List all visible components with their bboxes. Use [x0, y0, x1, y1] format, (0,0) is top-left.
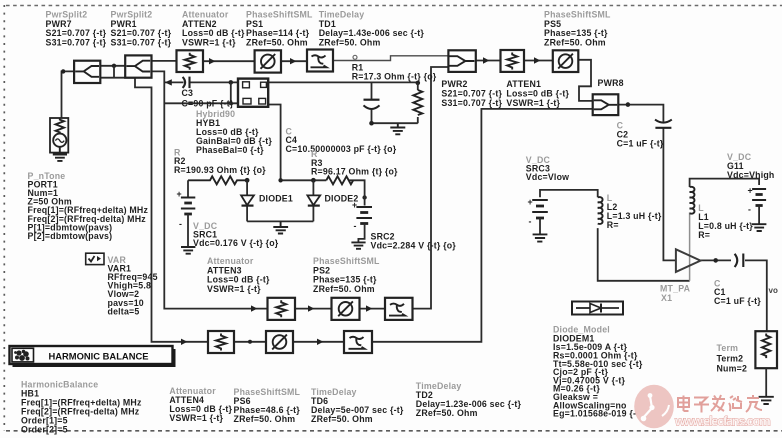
arrow on ATTEN3 input wire [251, 305, 257, 311]
svg-text:PWR8: PWR8 [598, 78, 624, 88]
svg-text:+: + [177, 189, 182, 199]
phase shifter PS1 [255, 50, 281, 72]
label Attenuator ATTEN4 [169, 386, 232, 423]
power combiner PWR2 [448, 50, 475, 72]
wire tap down from C3 wire to hybrid lower-left wire [230, 82, 232, 103]
wire C1 to vo and down to Term2 [745, 260, 767, 331]
time delay TD6 [344, 331, 372, 353]
svg-text:S31=0.707 {-t}: S31=0.707 {-t} [46, 37, 107, 47]
diode DIODE1 [241, 180, 254, 221]
svg-text:ZRef=50. Ohm: ZRef=50. Ohm [416, 408, 478, 418]
arrow ATTEN3 to PS2 [308, 305, 314, 311]
phase shifter PS6 [266, 331, 293, 353]
svg-text:Vdc=2.284 V {-t} {o}: Vdc=2.284 V {-t} {o} [371, 241, 457, 251]
wire C2 down to amplifier input [663, 128, 676, 261]
label PwrSplit2 PWR1 [111, 10, 172, 48]
svg-text:C=1 uF {-t}: C=1 uF {-t} [617, 139, 664, 149]
wire SRC3 to L2 [540, 190, 598, 197]
svg-text:vo: vo [769, 286, 778, 295]
watermark chinese characters [678, 395, 762, 413]
node junction PWR7 outputs [112, 64, 116, 68]
ground SRC3 [533, 234, 548, 241]
svg-text:X1: X1 [661, 293, 672, 303]
label SRC2 [371, 232, 457, 251]
svg-text:R=190.93 Ohm {t} {o}: R=190.93 Ohm {t} {o} [174, 165, 266, 175]
wire HYB1 output to shunt RC [268, 81, 418, 83]
ground under PORT1 [53, 147, 67, 161]
svg-text:P[2]=dbmtow(pavs): P[2]=dbmtow(pavs) [28, 231, 113, 241]
phase shifter PS2 [332, 298, 360, 320]
node tap junction on hybrid lower wire [229, 101, 233, 105]
node on SRC2 drop wire [362, 195, 366, 199]
svg-text:R=17.3 Ohm {-t} {o}: R=17.3 Ohm {-t} {o} [352, 72, 437, 82]
wire TD1 to PWR2 upper input [333, 56, 448, 61]
label C2 [617, 121, 664, 149]
power combiner PWR8 [593, 94, 619, 115]
label P_nTone PORT1 [28, 171, 149, 241]
node shunt R top [416, 81, 421, 86]
svg-text:C=10.50000003 pF {-t} {o}: C=10.50000003 pF {-t} {o} [286, 144, 397, 154]
power splitter PWR1 [125, 55, 151, 77]
svg-text:Loss=0 dB {-t}: Loss=0 dB {-t} [506, 89, 569, 99]
watermark logo circle [634, 385, 674, 429]
svg-text:C=90 pF {-t}: C=90 pF {-t} [182, 98, 234, 108]
power splitter PWR7 [74, 61, 100, 83]
wire PS1 to TD1 [281, 60, 307, 62]
label R1 [352, 63, 437, 82]
node DIODE1 top [245, 178, 250, 183]
svg-text:-: - [354, 221, 357, 231]
svg-text:VSWR=1 {-t}: VSWR=1 {-t} [506, 98, 560, 108]
wire shunt cap stub [371, 82, 373, 123]
wire shunt R stub and bottom wire [372, 83, 418, 123]
inductor L1 [690, 187, 695, 214]
svg-text:Vdc=Vhigh: Vdc=Vhigh [727, 170, 775, 180]
ground SRC1 [181, 247, 195, 254]
svg-text:R=: R= [698, 230, 710, 240]
wire L1 top to G11 [690, 179, 760, 187]
ground Term2 [759, 397, 774, 404]
svg-text:S31=0.707 {-t}: S31=0.707 {-t} [111, 37, 172, 47]
label C3 [182, 88, 234, 108]
amplifier MT_PA X1 [676, 249, 701, 272]
shunt capacitor on R1 line [364, 100, 380, 109]
wire C3 to HYB1 [190, 81, 241, 83]
label PhaseShiftSML PS5 [544, 10, 611, 48]
label L1 [698, 203, 753, 240]
svg-text:DIODE2: DIODE2 [325, 194, 359, 204]
label L2 [607, 193, 662, 230]
wire PWR7 to PWR1 [100, 65, 125, 67]
node amp output [713, 258, 718, 263]
label TimeDelay TD1 [319, 10, 425, 48]
wire ATTEN4 to PS6 [234, 341, 266, 343]
wire L2 down to bias rail [598, 228, 690, 281]
wire diode bottoms [247, 220, 313, 222]
battery G11 [748, 186, 767, 224]
label Hybrid90 HYB1 [196, 109, 272, 155]
svg-text:ATTEN1: ATTEN1 [506, 79, 541, 89]
svg-text:ZRef=50. Ohm: ZRef=50. Ohm [313, 284, 375, 294]
svg-text:ZRef=50. Ohm: ZRef=50. Ohm [246, 37, 308, 47]
wire ATTEN2 to PS1 [203, 60, 255, 62]
label TimeDelay TD2 [416, 381, 522, 418]
label PhaseShiftSML PS2 [313, 256, 380, 294]
label R3 [311, 149, 398, 177]
label HarmonicBalance HB1 [21, 380, 142, 435]
node junction C3 wire to lower tap [229, 80, 234, 85]
label PhaseShiftSML PS1 [246, 10, 313, 48]
attenuator ATTEN1 [501, 50, 525, 72]
port source PORT1 [50, 118, 68, 153]
svg-text:ZRef=50. Ohm: ZRef=50. Ohm [311, 414, 373, 424]
label Term Term2 [717, 343, 748, 374]
terminal Term2 [755, 331, 777, 396]
svg-text:+: + [748, 186, 753, 196]
svg-text:+: + [528, 197, 533, 207]
node ATTEN4 to PS6 [248, 340, 252, 344]
time delay TD2 [385, 298, 413, 320]
resistor R1 shunt [413, 90, 422, 115]
node shunt bottom [369, 121, 374, 126]
wire L1 bottom through amp to rail [689, 212, 691, 280]
label ATTEN1 [506, 79, 569, 108]
label PWR2 [441, 79, 502, 108]
label PwrSplit2 PWR7 [46, 10, 107, 48]
battery SRC1 [177, 180, 196, 246]
node at PWR7 input [61, 69, 65, 73]
svg-text:-: - [748, 205, 751, 215]
label V_DC SRC3 [526, 155, 569, 182]
label TimeDelay TD6 [311, 387, 404, 424]
capacitor C1 [735, 254, 744, 268]
ground diodes [273, 221, 288, 233]
capacitor C2 [655, 120, 672, 128]
attenuator ATTEN3 [268, 298, 296, 320]
diode DIODE2 [307, 180, 320, 221]
VAR icon [86, 253, 104, 264]
wire hybrid bottom-left port line [164, 102, 241, 104]
node PWR8 output [626, 102, 631, 107]
wire source to PWR7 [62, 71, 75, 117]
arrow ATTEN1 to PS5 [534, 57, 540, 63]
label C4 [286, 127, 397, 154]
diode model symbol DIODEM1 [572, 302, 623, 315]
label MT_PA X1 [660, 284, 691, 304]
arrow PS6 to TD6 [317, 339, 323, 345]
svg-text:www.elecfans.com: www.elecfans.com [674, 414, 771, 429]
wire ATTEN3 chain return up to PWR2 lower input [413, 67, 449, 309]
svg-text:C3: C3 [182, 88, 194, 98]
svg-text:R=: R= [607, 220, 619, 230]
svg-text:-: - [179, 219, 182, 229]
node DIODE2 top [311, 178, 316, 183]
label Attenuator ATTEN3 [207, 256, 270, 294]
svg-text:Term2: Term2 [717, 354, 744, 364]
attenuator ATTEN4 [208, 331, 234, 353]
label R2 [174, 148, 266, 175]
svg-text:R=96.17 Ohm {t} {o}: R=96.17 Ohm {t} {o} [311, 167, 398, 177]
arrow PS1 to TD1 [290, 58, 296, 64]
wire TD6 chain return up to PWR8 lower input [372, 109, 593, 342]
ground shunt RC [390, 123, 405, 134]
wire hybrid bottom-right port down to diode rail [266, 105, 281, 181]
resistor R2 on diode rail [188, 176, 247, 184]
svg-text:VSWR=1 {-t}: VSWR=1 {-t} [207, 284, 261, 294]
svg-text:VSWR=1 {-t}: VSWR=1 {-t} [182, 37, 236, 47]
label V_DC G11 [727, 152, 775, 180]
label Attenuator ATTEN2 [182, 10, 245, 48]
arrow on ATTEN4 input wire [181, 339, 187, 345]
battery SRC2 [352, 195, 372, 242]
svg-text:Num=2: Num=2 [717, 364, 748, 374]
svg-text:Vdc=0.176 V {-t} {o}: Vdc=0.176 V {-t} {o} [193, 238, 279, 248]
svg-text:DIODE1: DIODE1 [259, 194, 293, 204]
svg-text:Order[2]=5: Order[2]=5 [21, 425, 68, 435]
svg-text:ZRef=50. Ohm: ZRef=50. Ohm [319, 37, 381, 47]
arrow PS2 to TD2 [366, 305, 372, 311]
label VAR VAR1 [108, 255, 158, 317]
wire PWR2 to ATTEN1 [476, 60, 501, 62]
battery SRC3 [528, 197, 548, 234]
wire branch to C3 with left arrow [164, 81, 183, 83]
hybrid90 HYB1 [238, 79, 268, 107]
wire PS5 S-bend down to PWR8 upper input [578, 60, 592, 101]
svg-text:S31=0.707 {-t}: S31=0.707 {-t} [441, 98, 502, 108]
phase shifter PS5 [553, 50, 579, 72]
svg-text:S21=0.707 {-t}: S21=0.707 {-t} [441, 89, 502, 99]
svg-text:VSWR=1 {-t}: VSWR=1 {-t} [169, 413, 223, 423]
wire PS6 to TD6 [293, 341, 344, 343]
ground SRC2 [351, 242, 365, 248]
wire ATTEN3 to PS2 [295, 308, 332, 310]
wire PWR1 lower output down long vertical to ATTEN3 chain [152, 71, 268, 308]
svg-text:-: - [529, 217, 532, 227]
svg-text:PhaseBal=0 {-t}: PhaseBal=0 {-t} [196, 145, 264, 155]
node circle on TD1 output wire [353, 55, 357, 59]
svg-text:delta=5: delta=5 [108, 306, 140, 316]
wire ATTEN1 to PS5 [524, 60, 553, 62]
resistor R3 on diode rail [326, 176, 353, 184]
inductor L2 [598, 197, 603, 224]
label PhaseShiftSML PS6 [234, 387, 301, 424]
label V_DC SRC1 [193, 221, 279, 248]
attenuator ATTEN2 [177, 50, 204, 72]
wire PWR7 lower output staircase down to ATTEN4 chain [100, 66, 208, 342]
time delay TD1 [307, 50, 333, 72]
diode rail right section [281, 180, 365, 195]
svg-text:PWR2: PWR2 [441, 79, 467, 89]
wire PWR8 output to C2 [618, 105, 663, 122]
svg-text:Eg=1.01568e-019 {-: Eg=1.01568e-019 {- [553, 409, 636, 419]
svg-text:ZRef=50. Ohm: ZRef=50. Ohm [544, 37, 606, 47]
wire amp output to C1 [701, 259, 732, 261]
wire PWR1 to ATTEN2 [152, 60, 177, 62]
svg-text:Term: Term [717, 343, 739, 353]
svg-text:MT_PA: MT_PA [660, 284, 691, 294]
node hybrid drop on rail [278, 178, 282, 182]
svg-text:C=1 uF {-t}: C=1 uF {-t} [714, 296, 761, 306]
label C1 [714, 279, 761, 306]
capacitor C3 [183, 77, 190, 89]
harmonic balance controller box [10, 346, 176, 367]
wire PS2 to TD2 [360, 308, 386, 310]
svg-text:HARMONIC BALANCE: HARMONIC BALANCE [49, 350, 149, 361]
arrow PWR2 to ATTEN1 [483, 57, 489, 63]
svg-text:ZRef=50. Ohm: ZRef=50. Ohm [234, 414, 296, 424]
svg-text:Vdc=Vlow: Vdc=Vlow [526, 172, 569, 182]
arrow ATTEN2 to PS1 [209, 58, 215, 64]
ground G11 [752, 224, 766, 231]
label Diode_Model DIODEM1 [553, 325, 643, 419]
